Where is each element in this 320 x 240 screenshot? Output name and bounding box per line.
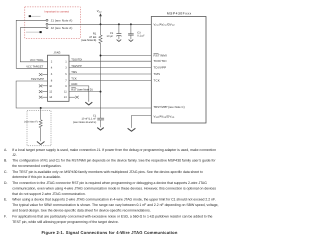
jumper J2 circle	[46, 27, 48, 29]
junction dot C2	[118, 23, 120, 25]
capacitor C2	[116, 24, 121, 39]
svg-text:The configuration of R1 and C1: The configuration of R1 and C1 for the R…	[12, 159, 216, 163]
label C1 values	[73, 114, 97, 123]
svg-text:The TEST pin is available only: The TEST pin is available only on MSP430…	[12, 170, 203, 174]
wire VCC rail	[48, 23, 151, 25]
wire RST/NMI net	[101, 55, 152, 57]
svg-text:E.: E.	[4, 197, 7, 201]
ground under C1	[97, 128, 104, 131]
wire RST to junction	[69, 91, 101, 93]
svg-text:For applications that are part: For applications that are particularly c…	[12, 215, 212, 219]
junction dot C3	[130, 23, 132, 25]
resistor R1	[99, 24, 102, 55]
svg-text:12: 12	[49, 91, 52, 94]
svg-text:If a local target power supply: If a local target power supply is used, …	[12, 148, 216, 152]
svg-text:TDI/VPP: TDI/VPP	[154, 66, 167, 70]
svg-text:(see Notes B and E): (see Notes B and E)	[73, 121, 96, 124]
svg-text:TDO/TDI: TDO/TDI	[71, 58, 82, 61]
svg-text:TDO/TDI: TDO/TDI	[154, 59, 167, 63]
svg-text:TEST pin, while still allowing: TEST pin, while still allowing proper pr…	[12, 220, 119, 224]
wire VCC TOOL: connector pin 2 to jumper J1	[16, 20, 47, 68]
no-connect pin 13	[69, 96, 79, 99]
svg-text:J2 (see Note A): J2 (see Note A)	[51, 26, 73, 30]
svg-text:10 µF: 10 µF	[107, 35, 114, 38]
ground under pulldown	[37, 142, 45, 145]
svg-text:TCK: TCK	[154, 78, 160, 82]
svg-text:The connection to the JTAG con: The connection to the JTAG connector RST…	[12, 181, 207, 185]
wire TDI/VPP	[69, 67, 152, 69]
svg-text:TDI/VPP: TDI/VPP	[71, 65, 82, 68]
svg-text:RST (see Note D): RST (see Note D)	[71, 88, 92, 91]
resistor R TEST pulldown	[39, 108, 42, 141]
ground under C2	[117, 40, 122, 42]
wire TCK	[69, 80, 152, 82]
svg-text:The typical value for SBW comm: The typical value for SBW communication …	[12, 203, 218, 207]
junction dot TEST resistor tap	[40, 107, 42, 109]
svg-text:B.: B.	[4, 159, 7, 163]
label C2 10 uF	[107, 32, 114, 38]
device MSP430Fxxx box	[151, 17, 206, 124]
svg-text:and board design. See the devi: and board design. See the device-specifi…	[12, 208, 151, 212]
capacitor C3	[128, 24, 134, 39]
svg-text:that do not support 2-wire JTA: that do not support 2-wire JTAG communic…	[12, 192, 86, 196]
notes text block	[4, 148, 219, 224]
svg-text:VCC TARGET: VCC TARGET	[26, 66, 43, 69]
svg-text:13: 13	[64, 96, 67, 99]
no-connect pin 12	[39, 90, 48, 93]
pin RST/NMI	[154, 53, 167, 57]
power VCC supply terminal	[97, 9, 102, 24]
wire GND	[69, 86, 89, 102]
svg-text:TEST/VPP (see Note C): TEST/VPP (see Note C)	[154, 105, 185, 109]
no-connect pin 6	[39, 73, 48, 76]
optional pulldown dashed box (see Note F)	[27, 111, 51, 146]
label R1 47 kOhm	[81, 33, 97, 43]
svg-text:communication, even when using: communication, even when using 4-wire JT…	[12, 186, 216, 190]
svg-text:RST/NMI: RST/NMI	[154, 53, 167, 57]
svg-text:Important to connect: Important to connect	[45, 11, 70, 14]
label RST (see Note D)	[71, 88, 92, 92]
svg-text:F.: F.	[4, 215, 7, 219]
pin numbers right column	[64, 60, 68, 99]
svg-text:GND: GND	[71, 83, 77, 86]
jumper header pin top (filled square with lead)	[29, 15, 41, 17]
svg-text:(see Note F): (see Note F)	[24, 120, 37, 123]
svg-text:10: 10	[49, 85, 52, 88]
svg-text:TMS: TMS	[71, 71, 77, 74]
ground under VSS	[128, 128, 136, 131]
wire VSS to ground	[132, 116, 152, 128]
ground under C3	[129, 40, 134, 42]
svg-text:0.1 µF: 0.1 µF	[137, 34, 145, 37]
label C3 0.1 uF	[137, 31, 145, 37]
svg-text:Figure 2-1. Signal Connections: Figure 2-1. Signal Connections for 4-Wir…	[41, 230, 177, 235]
connector JTAG box	[48, 55, 70, 101]
svg-text:the recommended configuration.: the recommended configuration.	[12, 164, 61, 168]
wire RST vertical	[100, 56, 102, 119]
svg-text:JTAG: JTAG	[54, 51, 61, 55]
svg-text:VCC TOOL: VCC TOOL	[30, 59, 44, 62]
junction dot RST/NMI	[100, 55, 102, 57]
node VCC center circle	[46, 23, 48, 25]
svg-text:J1 (see Note A): J1 (see Note A)	[51, 19, 73, 23]
svg-text:14: 14	[49, 96, 52, 99]
jumper header pin bottom (filled square with lead)	[26, 31, 42, 33]
svg-text:TCK: TCK	[71, 78, 77, 81]
capacitor C1	[97, 118, 104, 127]
svg-text:11: 11	[64, 91, 67, 94]
pin numbers left column	[49, 60, 53, 99]
svg-text:D.: D.	[4, 181, 7, 185]
wire VCC TARGET: connector pin 4 to jumper J2	[20, 28, 47, 62]
svg-text:(see Note B): (see Note B)	[81, 39, 96, 42]
wire TMS	[69, 73, 152, 75]
svg-text:J2.: J2.	[12, 153, 17, 157]
wire TEST/VPP: pin 8 to device	[16, 81, 151, 108]
svg-text:determine if this pin is avail: determine if this pin is available.	[12, 175, 61, 179]
ground under GND pin	[85, 102, 92, 105]
important-to-connect dashed box	[25, 7, 81, 38]
svg-text:TEST/VPP: TEST/VPP	[31, 78, 44, 81]
svg-text:When using a device that suppo: When using a device that supports 2-wire…	[12, 197, 216, 201]
svg-text:C.: C.	[4, 170, 7, 174]
jumper J1 circle	[46, 19, 48, 21]
wire TDO/TDI	[69, 60, 152, 62]
svg-text:A.: A.	[4, 148, 7, 152]
no-connect pin 14	[39, 96, 48, 99]
svg-text:MSP430Fxxx: MSP430Fxxx	[167, 11, 192, 15]
no-connect pin 10	[39, 85, 48, 88]
junction dot VCC/R1	[100, 23, 102, 25]
svg-text:TMS: TMS	[154, 72, 161, 76]
junction dot RST pin11	[100, 91, 102, 93]
